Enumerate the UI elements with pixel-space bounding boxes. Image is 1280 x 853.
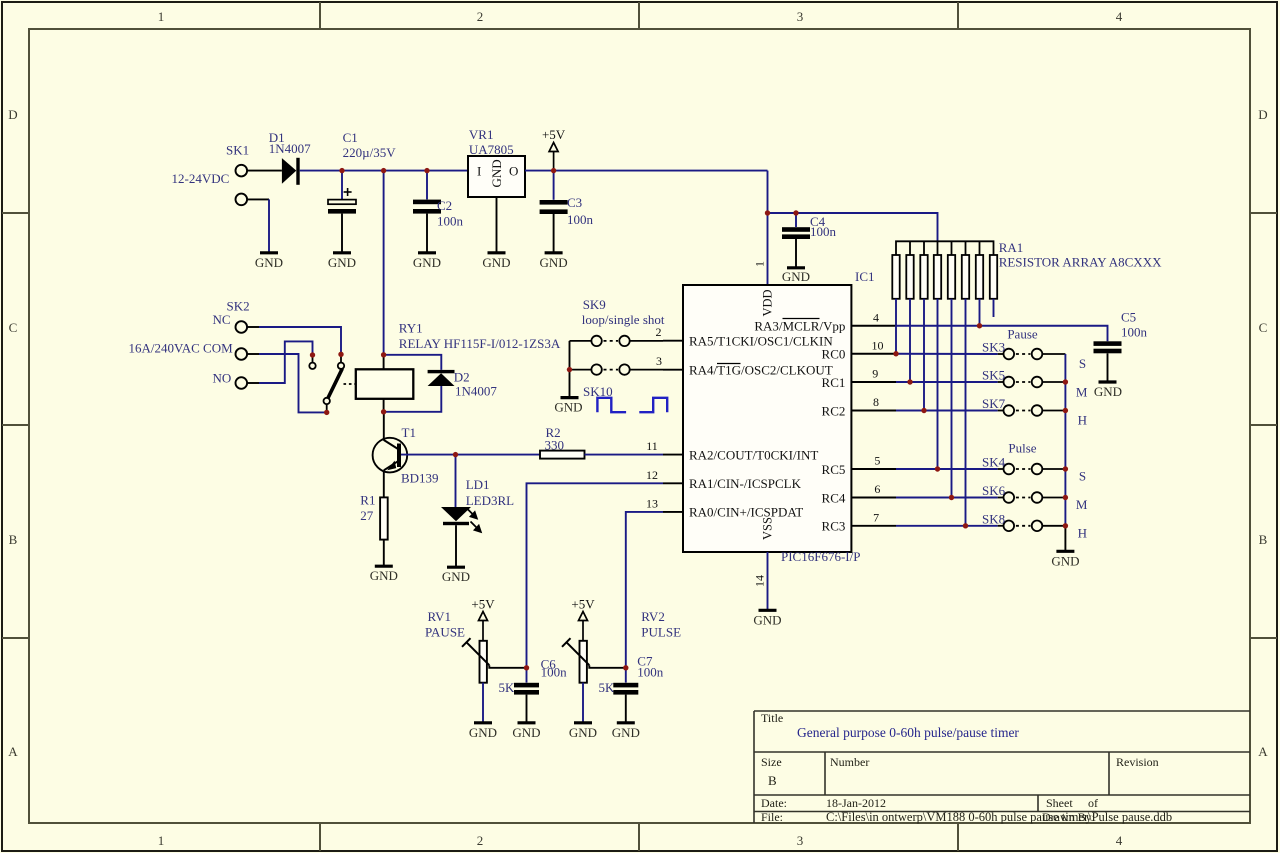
svg-text:8: 8 (873, 395, 879, 409)
svg-text:of: of (1088, 796, 1098, 810)
title block divider Size/Number (824, 752, 826, 795)
zone tick left B/A (2, 637, 29, 639)
wire SK1 pin2 stub (247, 198, 269, 200)
junction NC contact (338, 352, 343, 357)
wire T1 emitter to R1 (383, 470, 385, 497)
wire LD1 to gnd (455, 525, 457, 566)
svg-text:1: 1 (158, 833, 165, 848)
svg-text:GND: GND (512, 725, 540, 740)
ground sym C2 (413, 253, 441, 270)
wire VR1 out to corner (5V rail) (525, 170, 768, 172)
svg-text:Sheet: Sheet (1046, 796, 1073, 810)
svg-text:NO: NO (213, 371, 232, 386)
power +5V sym RV2 (579, 612, 588, 641)
wire pin6 to SK6 (896, 497, 998, 499)
wire SK1 pin2 down to gnd (268, 199, 270, 252)
svg-text:100n: 100n (567, 212, 594, 227)
relay coil box RY1 (356, 369, 414, 399)
svg-text:RA2/COUT/T0CKI/INT: RA2/COUT/T0CKI/INT (689, 447, 818, 462)
wire RV1 wiper to node (489, 665, 526, 668)
svg-text:C5: C5 (1121, 310, 1136, 325)
capacitor C6 (514, 668, 539, 722)
pin stubs right (851, 326, 896, 526)
svg-text:Date:: Date: (761, 796, 787, 810)
ground sym VR1 (482, 253, 510, 270)
svg-text:7: 7 (873, 510, 879, 524)
waveform glyph loop (597, 398, 626, 412)
junction vdd node (765, 210, 770, 215)
svg-text:RV1: RV1 (428, 609, 452, 624)
title block left edge (753, 711, 755, 823)
svg-text:14: 14 (753, 575, 767, 587)
svg-text:+5V: +5V (471, 597, 495, 612)
zone tick left C/B (2, 424, 29, 426)
svg-text:1: 1 (753, 261, 767, 267)
led arrows (467, 508, 481, 532)
svg-text:C:\Files\in ontwerp\VM188 0-60: C:\Files\in ontwerp\VM188 0-60h pulse pa… (826, 810, 1172, 824)
svg-text:GND: GND (782, 269, 810, 284)
wire R1 to gnd (383, 540, 385, 566)
svg-text:SK8: SK8 (982, 511, 1005, 526)
junction C1 top (339, 168, 344, 173)
junction blade pivot (324, 410, 329, 415)
connector SK1 pin 2 (236, 194, 248, 206)
svg-text:D: D (8, 107, 17, 122)
IC U1 box PIC16F676 (683, 285, 851, 552)
ground sym SK1 (255, 253, 283, 270)
wire pin5 to SK4 (896, 468, 998, 470)
svg-text:RA1/CIN-/ICSPCLK: RA1/CIN-/ICSPCLK (689, 476, 802, 491)
wire SK9 SK10 common to gnd (569, 341, 571, 397)
svg-text:A: A (1258, 744, 1268, 759)
svg-text:C: C (9, 320, 18, 335)
svg-text:Revision: Revision (1116, 755, 1159, 769)
wire pin8 to SK7 (896, 410, 998, 412)
svg-text:M: M (1076, 385, 1088, 400)
ground sym SK9 (554, 398, 582, 415)
svg-text:GND: GND (489, 159, 504, 187)
svg-text:16A/240VAC COM: 16A/240VAC COM (129, 341, 234, 356)
junction RA1 pin8 (921, 408, 926, 413)
wire rail corner down to vdd node (767, 171, 769, 285)
svg-text:RC5: RC5 (822, 462, 846, 477)
zone tick top 3/4 (957, 2, 959, 29)
title block line under Size row (754, 794, 1250, 796)
power +5V sym at rail (549, 143, 558, 171)
svg-text:D: D (1258, 107, 1267, 122)
svg-text:BD139: BD139 (401, 471, 439, 486)
svg-text:5: 5 (874, 454, 880, 468)
svg-text:S: S (1079, 356, 1086, 371)
svg-text:SK7: SK7 (982, 396, 1006, 411)
junction RV2 C7 (623, 665, 628, 670)
svg-text:VSS: VSS (761, 517, 775, 540)
wire NC pin stub (247, 326, 259, 328)
switch SK6 (998, 492, 1066, 503)
wire pin10 to SK3 (894, 353, 998, 355)
svg-text:D2: D2 (454, 370, 470, 385)
junction RA1 pin10 (893, 351, 898, 356)
resistor R2 (540, 451, 585, 459)
svg-text:RA5/T1CKI/OSC1/CLKIN: RA5/T1CKI/OSC1/CLKIN (689, 334, 833, 349)
svg-text:GND: GND (413, 255, 441, 270)
wire NC to right contact (259, 327, 341, 354)
svg-text:SK4: SK4 (982, 455, 1006, 470)
potentiometer RV2 body (580, 641, 587, 683)
capacitor C4 (782, 213, 810, 267)
svg-text:H: H (1078, 413, 1087, 428)
waveform glyph single shot (639, 398, 667, 412)
svg-text:100n: 100n (437, 214, 464, 229)
svg-text:LED3RL: LED3RL (466, 493, 514, 508)
ground sym C1 (328, 253, 356, 270)
wire RV2 bottom to gnd (582, 683, 584, 722)
svg-text:220µ/35V: 220µ/35V (343, 145, 397, 160)
svg-text:Size: Size (761, 755, 782, 769)
pin stubs left (663, 341, 683, 512)
svg-text:SK9: SK9 (583, 297, 606, 312)
ground sym LD1 (442, 567, 470, 584)
svg-text:R1: R1 (360, 493, 375, 508)
ground sym C7 (612, 723, 640, 740)
svg-text:VDD: VDD (761, 289, 775, 316)
svg-text:1: 1 (158, 9, 165, 24)
led LD1 (441, 507, 471, 525)
RV1 wiper (462, 638, 489, 665)
svg-text:UA7805: UA7805 (469, 142, 514, 157)
svg-text:B: B (9, 532, 18, 547)
svg-text:GND: GND (569, 725, 597, 740)
svg-text:SK3: SK3 (982, 340, 1005, 355)
zone tick right D/C (1250, 212, 1277, 214)
wire RV1 bottom to gnd (482, 683, 484, 722)
svg-text:12-24VDC: 12-24VDC (172, 171, 230, 186)
svg-text:RY1: RY1 (399, 321, 423, 336)
svg-text:+5V: +5V (542, 127, 566, 142)
potentiometer RV1 body (480, 641, 487, 683)
coil pin bottom (383, 399, 385, 412)
svg-text:9: 9 (872, 367, 878, 381)
RA1 tail wires to pins (896, 299, 994, 526)
zone tick bottom 1/2 (319, 823, 321, 851)
junction relay feed (381, 168, 386, 173)
svg-text:3: 3 (797, 833, 804, 848)
junction RA1 pin4 (977, 323, 982, 328)
svg-text:RA1: RA1 (999, 240, 1024, 255)
svg-text:M: M (1076, 497, 1088, 512)
zone tick left D/C (2, 212, 29, 214)
zone tick right B/A (1250, 637, 1277, 639)
svg-text:SK5: SK5 (982, 368, 1005, 383)
switch SK7 (998, 405, 1066, 416)
svg-text:RC1: RC1 (822, 375, 846, 390)
svg-text:A: A (8, 744, 18, 759)
relay blade (328, 369, 343, 399)
wire coil bottom to T1 collector (383, 412, 385, 441)
svg-text:loop/single shot: loop/single shot (582, 312, 665, 327)
title block line under Date row (754, 811, 1250, 813)
svg-text:RA3/MCLR/Vpp: RA3/MCLR/Vpp (754, 318, 845, 333)
svg-text:IC1: IC1 (855, 269, 875, 284)
wire pin12 to RV1 wiper node (527, 483, 664, 668)
wire COM pin stub (247, 353, 259, 355)
zone tick right C/B (1250, 424, 1277, 426)
junction NO contact (310, 352, 315, 357)
junction RA1 pin6 (949, 495, 954, 500)
svg-text:GND: GND (612, 725, 640, 740)
svg-text:RA4/T1G/OSC2/CLKOUT: RA4/T1G/OSC2/CLKOUT (689, 363, 833, 378)
ground sym RV2 (569, 723, 597, 740)
svg-text:1N4007: 1N4007 (455, 383, 497, 398)
junction bus SK6 (1063, 495, 1068, 500)
svg-text:RESISTOR ARRAY A8CXXX: RESISTOR ARRAY A8CXXX (999, 255, 1162, 270)
junction bus SK7 (1063, 408, 1068, 413)
transistor T1 BD139 (373, 438, 408, 473)
junction RA1 pin7 (963, 523, 968, 528)
junction coil bottom (381, 409, 386, 414)
wire pin14 to gnd (767, 552, 769, 610)
svg-text:+5V: +5V (571, 597, 595, 612)
wire 12V rail down to coil (383, 171, 385, 355)
svg-text:C2: C2 (437, 198, 452, 213)
capacitor C1 electrolytic (328, 171, 356, 252)
wire SK1 to D1 (247, 170, 282, 172)
svg-text:5K: 5K (599, 680, 616, 695)
svg-text:13: 13 (646, 496, 658, 510)
resistor R1 (380, 497, 388, 539)
svg-text:VR1: VR1 (469, 127, 494, 142)
coil pin top (383, 355, 385, 370)
svg-text:T1: T1 (402, 425, 416, 440)
svg-text:SK1: SK1 (226, 143, 249, 158)
switch SK9 (570, 336, 664, 346)
junction RA1 pin9 (907, 379, 912, 384)
svg-text:Title: Title (761, 711, 783, 725)
svg-text:RC2: RC2 (822, 403, 846, 418)
svg-text:H: H (1078, 526, 1087, 541)
junction bus SK5 (1063, 379, 1068, 384)
svg-text:B: B (768, 773, 777, 788)
svg-text:O: O (509, 164, 518, 179)
svg-text:RA0/CIN+/ICSPDAT: RA0/CIN+/ICSPDAT (689, 505, 803, 520)
connector SK2 pin NC (236, 321, 248, 333)
ground sym R1 (370, 566, 398, 583)
svg-text:100n: 100n (1121, 325, 1148, 340)
svg-text:PAUSE: PAUSE (425, 625, 465, 640)
svg-text:3: 3 (656, 354, 662, 368)
zone tick bottom 2/3 (638, 823, 640, 851)
switch SK8 (998, 521, 1066, 532)
capacitor C3 (540, 171, 568, 252)
junction 5V C3 (551, 168, 556, 173)
svg-text:18-Jan-2012: 18-Jan-2012 (826, 796, 886, 810)
svg-text:C: C (1259, 320, 1268, 335)
svg-text:GND: GND (1051, 553, 1079, 568)
svg-text:2: 2 (477, 9, 484, 24)
junction coil top (381, 352, 386, 357)
svg-text:LD1: LD1 (466, 477, 490, 492)
power +5V sym RV1 (479, 612, 488, 641)
svg-text:C3: C3 (567, 195, 582, 210)
diode D1 (282, 158, 300, 185)
svg-text:RC0: RC0 (822, 347, 846, 362)
junction bus SK4 (1063, 466, 1068, 471)
svg-text:GND: GND (328, 255, 356, 270)
title block line under Title row (754, 751, 1250, 753)
capacitor C2 (413, 171, 441, 252)
relay blade pivot contact (324, 398, 330, 413)
junction C4 top (793, 210, 798, 215)
svg-text:GND: GND (370, 568, 398, 583)
RA1 bus stubs (910, 241, 980, 255)
wire pin13 to RV2 wiper node (626, 512, 663, 668)
wire switch common bus (1064, 354, 1066, 526)
relay actuation dashed link (344, 383, 357, 385)
switch SK3 (998, 349, 1066, 360)
ground sym C4 (782, 268, 810, 284)
diode D2 (428, 370, 455, 386)
svg-text:NC: NC (213, 312, 231, 327)
wire bus to gnd (1064, 526, 1066, 551)
svg-text:100n: 100n (541, 665, 568, 680)
connector SK2 pin COM (236, 348, 248, 360)
wire RV2 wiper to node (589, 665, 626, 668)
zone tick top 2/3 (638, 2, 640, 29)
ground sym C5 (1094, 382, 1122, 399)
title block divider Number/Revision (1108, 752, 1110, 795)
svg-text:Number: Number (830, 755, 869, 769)
svg-text:File:: File: (761, 810, 783, 824)
svg-text:GND: GND (554, 400, 582, 415)
ground sym C6 (512, 723, 540, 740)
svg-text:RC3: RC3 (822, 519, 846, 534)
svg-text:Pause: Pause (1007, 326, 1038, 341)
svg-text:PULSE: PULSE (641, 625, 681, 640)
svg-text:2: 2 (656, 325, 662, 339)
wire NO pin stub (247, 382, 259, 384)
svg-text:GND: GND (753, 612, 781, 627)
svg-text:330: 330 (545, 438, 565, 453)
relay left fixed contact (309, 355, 315, 369)
svg-text:100n: 100n (637, 665, 664, 680)
wire R2 to IC pin11 (585, 454, 664, 456)
wire pin4 to C5 (896, 326, 1108, 342)
zone tick top 1/2 (319, 2, 321, 29)
wire NO to left contact (259, 341, 313, 383)
junction RV1 C6 (524, 665, 529, 670)
junction base LED (453, 452, 458, 457)
wire pin7 to SK8 (896, 525, 998, 527)
switch SK4 (998, 464, 1066, 475)
junction C2 top (424, 168, 429, 173)
svg-text:GND: GND (540, 255, 568, 270)
svg-text:General purpose 0-60h pulse/pa: General purpose 0-60h pulse/pause timer (797, 725, 1019, 740)
title block top edge (754, 710, 1250, 712)
wire VR1 gnd pin (496, 197, 498, 252)
svg-text:GND: GND (469, 725, 497, 740)
resistor array RA1 common bus (896, 241, 994, 255)
svg-text:RELAY HF115F-I/012-1ZS3A: RELAY HF115F-I/012-1ZS3A (399, 336, 561, 351)
zone tick bottom 3/4 (957, 823, 959, 851)
svg-text:3: 3 (797, 9, 804, 24)
junction SK9 gnd (567, 367, 572, 372)
regulator VR1 box (468, 156, 525, 197)
svg-text:B: B (1259, 532, 1268, 547)
wire coil bottom to D2 anode (384, 386, 442, 412)
wire coil top to D2 cathode (384, 355, 442, 370)
ground sym RV1 (469, 723, 497, 740)
svg-text:6: 6 (874, 482, 880, 496)
capacitor C5 (1094, 341, 1122, 381)
ground sym switches (1051, 551, 1079, 568)
RV2 wiper (562, 638, 589, 665)
svg-text:GND: GND (442, 569, 470, 584)
svg-text:4: 4 (873, 310, 879, 324)
svg-text:C1: C1 (343, 130, 358, 145)
svg-text:SK6: SK6 (982, 483, 1006, 498)
wire pin9 to SK5 (896, 381, 998, 383)
svg-text:GND: GND (1094, 384, 1122, 399)
RA1 resistor bodies (892, 255, 997, 299)
junction bus SK8 (1063, 523, 1068, 528)
svg-text:11: 11 (646, 439, 658, 453)
svg-text:GND: GND (482, 255, 510, 270)
relay right fixed contact (338, 354, 344, 369)
svg-text:Pulse: Pulse (1008, 440, 1036, 455)
switch SK10 (570, 364, 664, 374)
switch SK5 (998, 377, 1066, 388)
svg-text:RC4: RC4 (822, 490, 846, 505)
svg-text:S: S (1079, 469, 1086, 484)
svg-text:4: 4 (1116, 833, 1123, 848)
wire vdd node to RA1 feed (768, 213, 938, 241)
wire COM to blade pivot (259, 354, 327, 412)
connector SK2 pin NO (236, 377, 248, 389)
svg-text:10: 10 (872, 338, 884, 352)
svg-text:100n: 100n (810, 224, 837, 239)
connector SK1 pin 1 (236, 165, 248, 177)
svg-text:PIC16F676-I/P: PIC16F676-I/P (781, 549, 860, 564)
svg-text:12: 12 (646, 468, 658, 482)
svg-text:RV2: RV2 (641, 609, 665, 624)
svg-text:Drawn By:: Drawn By: (1042, 810, 1095, 824)
svg-text:4: 4 (1116, 9, 1123, 24)
svg-text:GND: GND (255, 255, 283, 270)
svg-text:I: I (477, 164, 481, 179)
svg-text:2: 2 (477, 833, 484, 848)
svg-text:1N4007: 1N4007 (269, 141, 311, 156)
svg-text:27: 27 (360, 508, 374, 523)
junction RA1 pin5 (935, 466, 940, 471)
title block divider Sheet (1037, 795, 1039, 812)
ground sym C3 (540, 253, 568, 270)
svg-text:5K: 5K (499, 680, 516, 695)
wire LED branch down (455, 455, 457, 507)
ground sym pin14 (753, 610, 781, 627)
wire T1 base to R2 (401, 454, 540, 456)
wire D1 to VR1 input (main rail) (300, 170, 468, 172)
capacitor C7 (613, 668, 638, 722)
